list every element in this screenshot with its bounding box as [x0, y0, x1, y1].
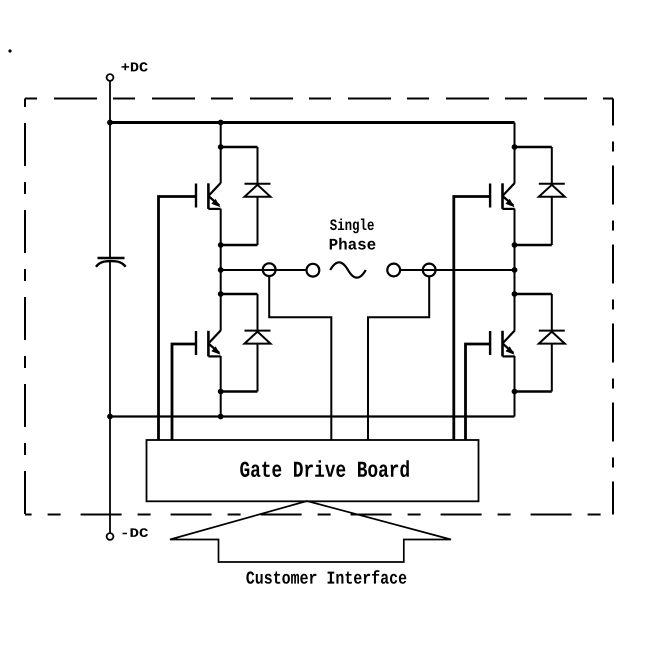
- diode D1: [245, 184, 271, 197]
- capacitor C1: [96, 258, 126, 267]
- label -DC: [123, 528, 149, 537]
- enclosure dashed boundary: [25, 99, 613, 515]
- diode D2: [245, 331, 271, 344]
- wire right leg emitter segment: [514, 356, 516, 417]
- terminal circle left inner: [307, 264, 320, 277]
- terminal circle left outer: [263, 263, 276, 276]
- wire sense right: [368, 276, 429, 440]
- wire top DC bus: [110, 121, 515, 124]
- wire Q2 collector-diode tap: [221, 293, 258, 296]
- wire -DC rail lower: [109, 262, 111, 533]
- wire Q3 collector-diode tap: [515, 146, 552, 149]
- wire right leg middle segment: [514, 209, 516, 331]
- transistor Q1: [196, 183, 221, 209]
- wire gate drive G2: [172, 344, 196, 440]
- wire sense left: [269, 276, 331, 440]
- transistor Q4: [490, 331, 515, 357]
- stray plot dot: [8, 49, 11, 52]
- wire diode D3 leads: [551, 147, 553, 245]
- wire gate drive G4: [466, 344, 491, 440]
- wire Q1 emitter-diode tap: [221, 244, 258, 247]
- wire left leg middle segment: [220, 209, 222, 331]
- wire gate drive G1: [159, 197, 197, 441]
- diode D3: [539, 184, 565, 197]
- terminal -DC: [107, 533, 114, 540]
- label Gate Drive Board: [240, 460, 409, 477]
- wire right leg collector segment: [514, 123, 516, 184]
- customer interface arrow: [170, 501, 451, 562]
- transistor Q2: [196, 331, 221, 357]
- wire phase right: [400, 269, 514, 271]
- wire diode D4 leads: [551, 294, 553, 392]
- terminal circle right inner: [387, 264, 400, 277]
- AC source sine: [330, 262, 366, 277]
- wire Q2 emitter-diode tap: [221, 390, 258, 393]
- wire Q4 emitter-diode tap: [515, 390, 552, 393]
- wire +DC rail upper: [109, 81, 111, 258]
- label Customer Interface: [246, 570, 406, 584]
- label +DC: [122, 62, 148, 71]
- wire Q1 collector-diode tap: [221, 146, 258, 149]
- wire left leg emitter segment: [220, 356, 222, 417]
- wire Q3 emitter-diode tap: [515, 244, 552, 247]
- wire diode D2 leads: [257, 294, 259, 392]
- wire bottom DC bus: [110, 415, 515, 417]
- label Single Phase: [330, 219, 374, 234]
- diode D4: [539, 331, 565, 344]
- wire diode D1 leads: [257, 147, 259, 245]
- terminal circle right outer: [423, 264, 436, 277]
- gate drive board box: [147, 440, 479, 501]
- terminal +DC: [107, 74, 114, 81]
- wire phase left: [221, 269, 307, 271]
- transistor Q3: [490, 183, 515, 209]
- wire left leg collector segment: [220, 123, 222, 184]
- wire Q4 collector-diode tap: [515, 293, 552, 296]
- wire gate drive G3: [454, 197, 490, 441]
